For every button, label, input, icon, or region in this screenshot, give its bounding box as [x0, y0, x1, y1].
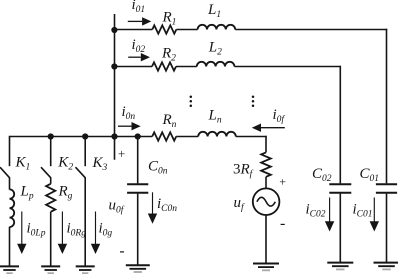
ellipsis right of L2 branch [252, 96, 255, 108]
wire: source to ground [265, 215, 267, 264]
wire: bus node down to C0n [137, 137, 139, 184]
current arrow iC01 [370, 198, 379, 232]
svg-text:-: - [119, 242, 124, 259]
svg-text:+: + [279, 175, 287, 189]
current arrow i0n [118, 122, 141, 130]
inductor Ln [198, 132, 236, 137]
current arrow i0g [91, 212, 100, 255]
wire: vertical down to C02 [339, 66, 341, 184]
wire: L1 to top-right corner [235, 29, 387, 31]
resistor 3Rf [261, 152, 271, 176]
node: bus-K3 junction [82, 133, 88, 139]
inductor L1 [198, 25, 236, 30]
wire: L2 to corner [234, 66, 341, 68]
ground: below source uf [253, 264, 279, 271]
current arrow iC0n [148, 192, 157, 224]
capacitor C02 [329, 184, 351, 193]
wire: R1 to L1 [176, 29, 197, 31]
current arrow iC02 [325, 198, 334, 232]
svg-text:-: - [280, 215, 285, 232]
resistor Rg [46, 184, 55, 212]
ground: below Lp [0, 266, 19, 273]
wire: Lp to ground [9, 227, 11, 267]
ground: below C02 [327, 263, 353, 270]
resistor Rn [152, 132, 176, 140]
resistor R2 [152, 62, 176, 70]
ground: below C0n [126, 265, 150, 272]
current arrow i0Lp [17, 212, 26, 255]
switch K3 blade [76, 167, 86, 178]
resistor R1 [152, 25, 176, 33]
wire: R2 to L2 [176, 66, 197, 68]
current arrow i01 [128, 17, 152, 25]
wire: Ln to corner at source branch [236, 136, 267, 138]
wire: main left vertical bus [114, 14, 116, 160]
ellipsis between L2 and Ln [190, 96, 193, 108]
node: branch-2 tap [111, 63, 117, 69]
wire: Rg to ground [50, 212, 52, 267]
wire: Rn to Ln [176, 136, 198, 138]
capacitor C0n [127, 184, 148, 193]
node: bus-C0n junction [135, 133, 141, 139]
capacitor C01 [376, 184, 397, 193]
wire: K3 branch upper [84, 137, 86, 167]
wire: branch-2 from bus node to R2 [115, 66, 153, 68]
wire: vertical down to 3Rf [265, 136, 267, 153]
ground: below K3 [76, 266, 95, 273]
wire: K2 to Rg [50, 177, 52, 183]
ground: below C01 [374, 263, 398, 270]
wire: branch-1 from bus node to R1 [115, 29, 153, 31]
svg-text:+: + [117, 146, 126, 161]
wire: right vertical down to C01 [386, 29, 388, 184]
source uf (AC) [253, 188, 280, 215]
node: bus main junction [111, 133, 117, 139]
current arrow i02 [128, 53, 150, 61]
node: bus-K2 junction [48, 133, 54, 139]
ground: below Rg [41, 266, 60, 273]
wire: K1 branch upper [9, 136, 11, 166]
current arrow i0f [252, 124, 285, 132]
wire: K3 to ground [84, 177, 86, 267]
wire: C0n to ground [137, 194, 139, 266]
wire: K1 to Lp [9, 177, 11, 189]
node: branch-1 tap [111, 27, 117, 33]
wire: C02 to ground [339, 194, 341, 263]
wire: bottom horizontal bus (node row) [10, 136, 153, 138]
wire: K2 branch upper [50, 137, 52, 167]
current arrow i0Rg [58, 212, 67, 255]
switch K1 blade [0, 167, 10, 178]
wire: C01 to ground [386, 194, 388, 263]
switch K2 blade [41, 167, 51, 178]
inductor Lp [10, 189, 15, 227]
wire: 3Rf to source [265, 177, 267, 189]
inductor L2 [197, 62, 235, 67]
